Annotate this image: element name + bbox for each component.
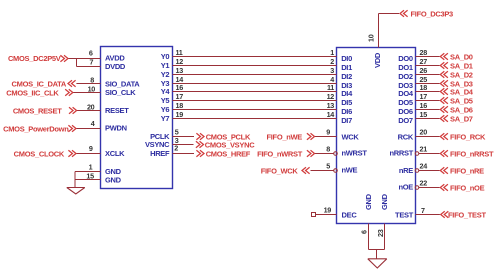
svg-text:1: 1 — [89, 162, 93, 171]
svg-text:DI1: DI1 — [341, 63, 352, 72]
svg-text:SA_D7: SA_D7 — [450, 115, 473, 124]
svg-text:CMOS_HREF: CMOS_HREF — [206, 150, 251, 159]
svg-text:CMOS_CLOCK: CMOS_CLOCK — [14, 150, 65, 159]
svg-text:DO6: DO6 — [398, 107, 413, 116]
svg-text:4: 4 — [91, 119, 95, 128]
svg-text:DI2: DI2 — [341, 72, 352, 81]
svg-text:FIFO_DC3P3: FIFO_DC3P3 — [411, 10, 454, 19]
svg-text:SA_D4: SA_D4 — [450, 88, 474, 97]
svg-text:27: 27 — [420, 57, 428, 66]
svg-text:DO1: DO1 — [398, 63, 413, 72]
svg-text:13: 13 — [327, 101, 335, 110]
svg-text:16: 16 — [420, 101, 428, 110]
svg-text:HREF: HREF — [150, 149, 170, 158]
svg-text:nRRST: nRRST — [390, 149, 414, 158]
svg-text:19: 19 — [324, 206, 332, 215]
svg-text:12: 12 — [176, 57, 184, 66]
svg-text:nRE: nRE — [399, 166, 413, 175]
svg-text:WCK: WCK — [342, 133, 360, 142]
svg-text:SA_D6: SA_D6 — [450, 106, 473, 115]
svg-text:7: 7 — [421, 206, 425, 215]
svg-text:RCK: RCK — [398, 133, 414, 142]
svg-text:SA_D1: SA_D1 — [450, 62, 473, 71]
svg-text:FIFO_TEST: FIFO_TEST — [448, 211, 486, 220]
svg-text:DI5: DI5 — [341, 98, 352, 107]
svg-text:SA_D0: SA_D0 — [450, 53, 473, 62]
svg-text:Y6: Y6 — [161, 105, 170, 114]
svg-text:Y2: Y2 — [161, 70, 170, 79]
svg-text:DVDD: DVDD — [105, 62, 126, 71]
svg-text:26: 26 — [420, 66, 428, 75]
svg-text:CMOS_VSYNC: CMOS_VSYNC — [205, 141, 255, 150]
svg-text:11: 11 — [327, 83, 334, 92]
svg-text:FIFO_nOE: FIFO_nOE — [450, 184, 485, 193]
svg-text:FIFO_nRRST: FIFO_nRRST — [450, 150, 494, 159]
svg-text:28: 28 — [420, 48, 428, 57]
svg-text:nOE: nOE — [398, 183, 413, 192]
svg-text:13: 13 — [176, 66, 184, 75]
svg-text:22: 22 — [420, 179, 428, 188]
svg-text:DO4: DO4 — [398, 89, 414, 98]
svg-text:Y0: Y0 — [161, 52, 170, 61]
svg-text:VSYNC: VSYNC — [145, 140, 170, 149]
svg-text:17: 17 — [176, 92, 184, 101]
svg-text:6: 6 — [89, 49, 93, 58]
svg-text:15: 15 — [86, 171, 94, 180]
svg-text:24: 24 — [420, 162, 428, 171]
svg-text:Y4: Y4 — [161, 87, 171, 96]
svg-text:FIFO_nRE: FIFO_nRE — [450, 167, 484, 176]
svg-text:FIFO_RCK: FIFO_RCK — [450, 133, 486, 142]
svg-text:12: 12 — [327, 92, 335, 101]
svg-text:DO0: DO0 — [398, 54, 413, 63]
svg-text:18: 18 — [420, 83, 428, 92]
svg-text:6: 6 — [360, 230, 369, 234]
svg-text:3: 3 — [330, 66, 334, 75]
svg-text:15: 15 — [420, 110, 428, 119]
svg-text:9: 9 — [89, 144, 93, 153]
svg-text:TEST: TEST — [395, 211, 414, 220]
svg-text:19: 19 — [176, 110, 184, 119]
svg-text:RESET: RESET — [105, 106, 129, 115]
svg-text:FIFO_nWE: FIFO_nWE — [266, 133, 302, 142]
svg-text:8: 8 — [326, 145, 330, 154]
svg-text:8: 8 — [90, 75, 94, 84]
svg-text:GND: GND — [380, 193, 389, 210]
svg-text:CMOS_RESET: CMOS_RESET — [13, 107, 62, 116]
svg-text:nWRST: nWRST — [342, 149, 368, 158]
svg-text:PWDN: PWDN — [105, 124, 127, 133]
svg-text:FIFO_nWRST: FIFO_nWRST — [257, 150, 303, 159]
svg-text:2: 2 — [330, 57, 334, 66]
svg-text:CMOS_DC2P5V: CMOS_DC2P5V — [8, 54, 61, 63]
svg-text:DEC: DEC — [342, 211, 358, 220]
svg-text:10: 10 — [367, 34, 376, 42]
svg-text:SA_D5: SA_D5 — [450, 97, 473, 106]
svg-text:7: 7 — [89, 57, 93, 66]
svg-text:SIO_CLK: SIO_CLK — [105, 88, 136, 97]
svg-text:DI6: DI6 — [341, 107, 352, 116]
svg-text:1: 1 — [330, 48, 334, 57]
svg-text:CMOS_PowerDown: CMOS_PowerDown — [3, 125, 69, 134]
svg-text:GND: GND — [105, 175, 122, 184]
svg-text:16: 16 — [176, 83, 184, 92]
svg-text:18: 18 — [176, 101, 184, 110]
svg-text:10: 10 — [88, 84, 96, 93]
svg-text:GND: GND — [364, 193, 373, 210]
svg-text:DI0: DI0 — [341, 54, 352, 63]
svg-text:14: 14 — [327, 110, 335, 119]
svg-text:20: 20 — [420, 128, 428, 137]
svg-text:17: 17 — [420, 92, 428, 101]
svg-text:5: 5 — [326, 162, 330, 171]
svg-text:11: 11 — [176, 48, 183, 57]
svg-text:Y5: Y5 — [161, 96, 170, 105]
svg-text:DO2: DO2 — [398, 72, 413, 81]
svg-text:SA_D2: SA_D2 — [450, 71, 473, 80]
svg-text:Y7: Y7 — [161, 114, 170, 123]
svg-text:DO7: DO7 — [398, 116, 413, 125]
svg-text:20: 20 — [87, 102, 95, 111]
svg-text:CMOS_IC_DATA: CMOS_IC_DATA — [12, 80, 67, 89]
svg-text:XCLK: XCLK — [105, 149, 125, 158]
svg-text:9: 9 — [326, 128, 330, 137]
svg-text:2: 2 — [174, 143, 178, 152]
svg-text:VDD: VDD — [373, 52, 382, 68]
svg-text:21: 21 — [420, 145, 428, 154]
svg-text:DO5: DO5 — [398, 98, 413, 107]
svg-text:nWE: nWE — [342, 166, 358, 175]
svg-text:FIFO_WCK: FIFO_WCK — [261, 167, 299, 176]
svg-text:23: 23 — [376, 229, 385, 237]
svg-text:DI4: DI4 — [341, 89, 353, 98]
svg-text:Y1: Y1 — [161, 61, 170, 70]
svg-text:CMOS_IIC_CLK: CMOS_IIC_CLK — [6, 89, 59, 98]
svg-text:DI7: DI7 — [341, 116, 352, 125]
